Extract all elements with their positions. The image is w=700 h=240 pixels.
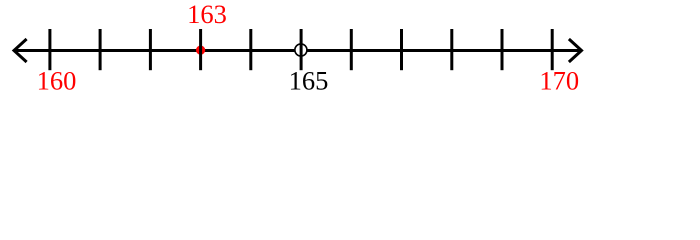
svg-text:165: 165: [289, 66, 329, 96]
number line (horizontal axis): [15, 49, 580, 52]
tick 164: [249, 29, 252, 70]
tick 170: [551, 29, 554, 70]
svg-text:163: 163: [187, 0, 227, 29]
tick 162: [149, 29, 152, 70]
right arrowhead: [570, 40, 582, 61]
filled point at 163: [196, 46, 205, 55]
svg-text:160: 160: [37, 66, 77, 96]
tick 165: [300, 29, 303, 70]
tick 163: [199, 29, 202, 70]
open circle at 165: [295, 44, 307, 56]
tick 166: [350, 29, 353, 70]
left arrowhead: [14, 40, 26, 61]
tick 160: [48, 29, 51, 70]
tick 161: [99, 29, 102, 70]
svg-text:170: 170: [539, 66, 579, 96]
tick 168: [450, 29, 453, 70]
tick 167: [400, 29, 403, 70]
tick 169: [501, 29, 504, 70]
